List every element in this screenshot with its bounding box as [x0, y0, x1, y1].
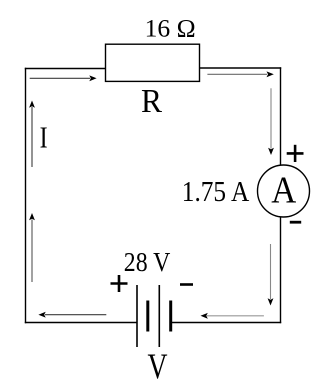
current arrow top-left (rightward)	[30, 75, 97, 81]
current arrow top-right (rightward)	[207, 71, 273, 77]
current arrow right lower (downward)	[268, 244, 274, 306]
ammeter minus terminal	[290, 221, 301, 224]
current arrow left lower (upward)	[29, 213, 35, 282]
battery minus terminal	[180, 283, 193, 286]
wire bottom-left (node D to battery V)	[25, 322, 137, 324]
svg-text:I: I	[40, 120, 48, 155]
current arrow right upper (downward)	[268, 88, 274, 155]
battery V plate short left	[146, 301, 149, 332]
svg-text:A: A	[271, 170, 296, 212]
resistor R	[106, 44, 200, 81]
battery plus terminal	[111, 275, 128, 292]
wire top-left (node A to resistor R)	[25, 68, 106, 70]
battery V plate long right	[158, 285, 160, 347]
svg-text:V: V	[148, 346, 168, 380]
battery V plate short right	[169, 301, 172, 332]
svg-text:28 V: 28 V	[124, 247, 171, 277]
current arrow left upper (upward)	[29, 101, 35, 168]
current arrow bottom-left (leftward)	[38, 312, 106, 318]
current arrow bottom-right (leftward)	[201, 313, 264, 319]
wire right lower (ammeter A to node C)	[280, 217, 282, 323]
wire top-right (resistor R to node B)	[199, 67, 281, 69]
svg-text:1.75 A: 1.75 A	[182, 177, 250, 208]
ammeter U1 (A)	[258, 165, 310, 217]
battery V plate long left	[136, 285, 138, 347]
wire bottom-right (battery V to node C)	[171, 322, 282, 324]
wire right upper (node B to ammeter A)	[280, 67, 282, 166]
svg-text:R: R	[141, 83, 162, 120]
ammeter plus terminal	[287, 145, 304, 162]
wire left (node A to node D)	[25, 68, 27, 323]
svg-text:16 Ω: 16 Ω	[145, 16, 196, 43]
